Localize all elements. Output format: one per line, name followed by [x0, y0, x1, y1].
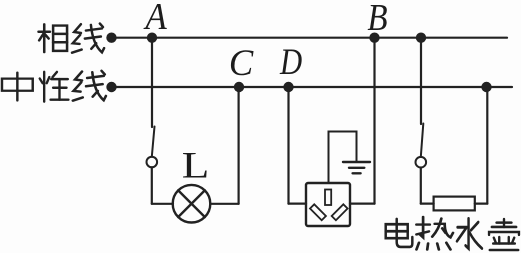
- wire corner to lamp L: [152, 203, 173, 205]
- kettle heating element R body: [434, 197, 475, 211]
- svg-text:D: D: [279, 43, 302, 83]
- wire riser up to node C: [238, 87, 240, 204]
- svg-text:L: L: [182, 144, 210, 185]
- wire corner to kettle R: [421, 203, 434, 205]
- socket earth slot: [325, 190, 331, 206]
- socket XS body: [306, 183, 350, 226]
- socket left slot: [310, 204, 326, 220]
- wire A down to switch S1: [151, 38, 153, 127]
- ground symbol bar1: [343, 161, 370, 163]
- node C dot: [234, 82, 244, 92]
- node A dot: [147, 33, 157, 43]
- junction dot live-kettle: [416, 33, 426, 43]
- wire kettle to riser: [475, 203, 488, 205]
- label 电热水壶 (electric kettle): [386, 217, 519, 250]
- switch S2 pivot circle: [416, 157, 427, 168]
- svg-text:A: A: [143, 0, 167, 37]
- ground symbol bar3: [353, 172, 361, 174]
- wire D down: [287, 87, 289, 204]
- earth stem from socket: [329, 132, 357, 184]
- socket right slot: [332, 204, 348, 220]
- wire lamp to riser: [210, 203, 238, 205]
- lamp L cross: [178, 190, 205, 217]
- wire switch S2 to corner: [420, 168, 422, 204]
- label 相线 (live wire label): [39, 24, 105, 53]
- neutral wire 中性线: [112, 86, 513, 88]
- svg-text:B: B: [367, 0, 387, 39]
- switch S1 blade: [152, 127, 155, 157]
- wire riser up to neutral junction: [486, 87, 488, 204]
- switch S1 pivot circle: [147, 157, 158, 168]
- svg-text:C: C: [229, 42, 254, 83]
- wire junction down to switch S2: [420, 38, 422, 124]
- lamp L circle: [173, 185, 211, 223]
- wire B down: [373, 38, 375, 204]
- wire to socket left pin: [289, 203, 307, 205]
- wire to socket right pin: [350, 203, 375, 205]
- terminal dot live-left: [106, 33, 116, 43]
- node B dot: [369, 33, 379, 43]
- label 中性线 (neutral wire label): [2, 71, 106, 102]
- ground symbol bar2: [349, 167, 364, 169]
- wire switch S1 to corner: [151, 167, 153, 204]
- switch S2 blade: [421, 124, 424, 158]
- node D dot: [283, 82, 293, 92]
- junction dot neutral-kettle: [481, 82, 491, 92]
- live wire 相线: [112, 37, 508, 39]
- terminal dot neutral-left: [106, 82, 116, 92]
